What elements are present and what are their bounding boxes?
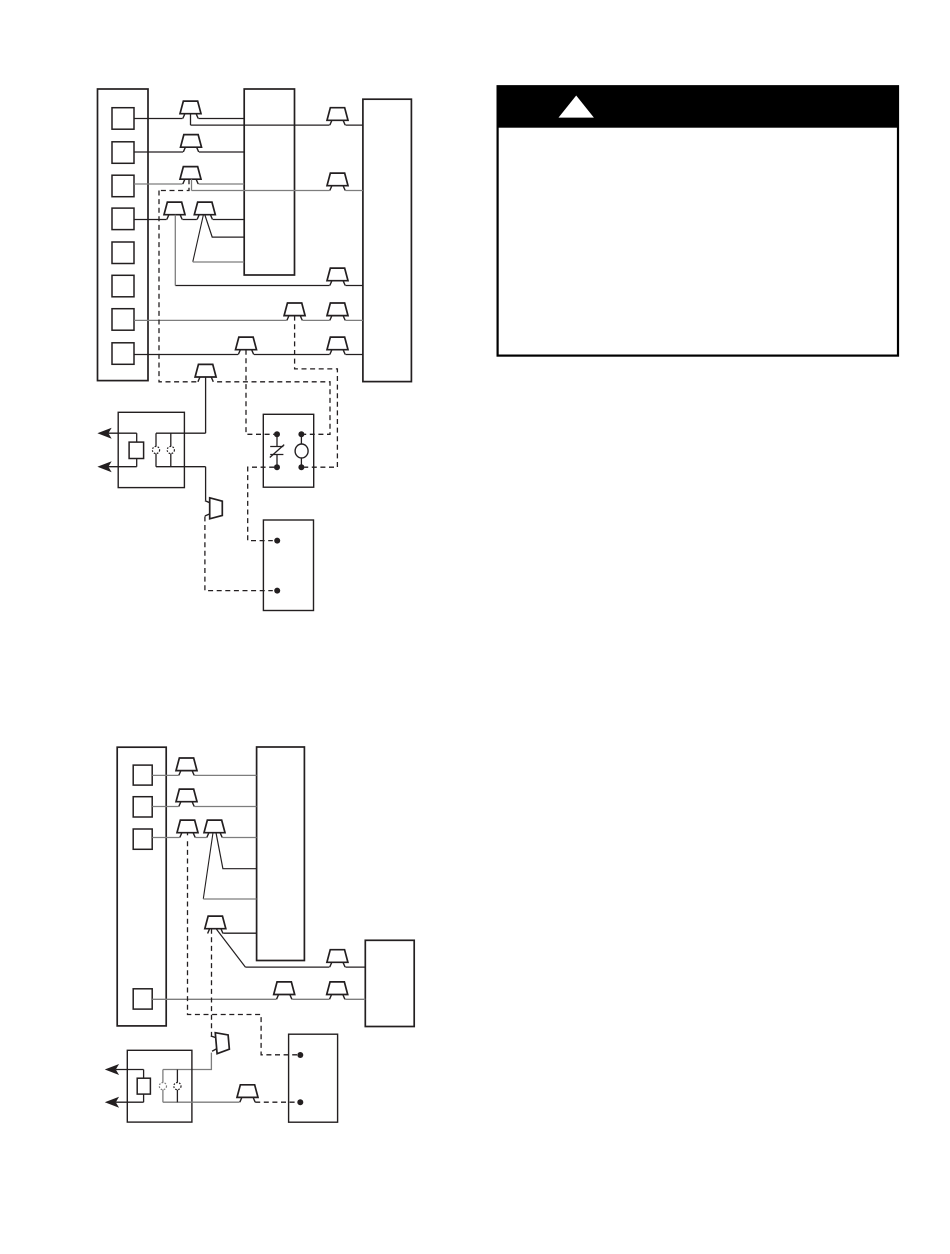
outdoor unit box 2 [365, 940, 414, 1026]
wire H2 to relay [163, 1053, 212, 1070]
thermostat terminal block TB1 [98, 89, 149, 381]
terminal R [112, 208, 134, 230]
T1 leads [155, 433, 157, 467]
wire nut LC1 [195, 364, 216, 384]
air handler control box [257, 747, 305, 961]
wire W to control [152, 806, 256, 808]
dashed drop from R4 [295, 316, 338, 468]
wire nut C4 [164, 202, 185, 222]
capacitor element [270, 437, 283, 465]
contactor terminal dot 1 [274, 538, 280, 544]
T2 leads [170, 433, 172, 467]
wire nut Cb [237, 1085, 258, 1105]
secondary bus top [156, 432, 206, 434]
drop wire from C3 [191, 179, 193, 190]
contactor 2 terminal dot 2 [297, 1099, 303, 1105]
dashed wire G circuit [159, 191, 330, 435]
wire O to outdoor unit [134, 319, 363, 321]
wire W2 to furnace [134, 118, 244, 120]
wire nut B6 [327, 950, 348, 970]
transformer relay box [118, 412, 184, 487]
run capacitor box [263, 414, 313, 487]
wire R to furnace [134, 219, 244, 221]
wire nut R5 [327, 303, 348, 323]
arrow to line hot 2 [106, 1065, 118, 1074]
dashed drop from C3 [159, 179, 189, 190]
wire nut R6 [236, 337, 257, 357]
wire nut R1 [327, 108, 348, 128]
wire nut H1 rotated [203, 498, 223, 519]
arrow line hot 2 [116, 1069, 144, 1071]
arrow to line neutral 2 [106, 1098, 118, 1107]
wire nut R3 [327, 268, 348, 288]
furnace control box [244, 89, 294, 275]
dashed wire H1 to contactor [205, 516, 273, 590]
arrow line neutral [109, 466, 137, 468]
motor terminal dot top [298, 431, 304, 437]
secondary bus bottom [156, 466, 206, 468]
dashed drop from R6 [246, 350, 274, 435]
capacitor arrow slash [270, 445, 284, 458]
coil lead top [136, 433, 138, 442]
capacitor terminal dot bottom [274, 464, 280, 470]
wire nut R2 [327, 173, 348, 193]
warning triangle [559, 96, 594, 118]
warning header bar [497, 85, 899, 127]
motor leads [300, 437, 302, 465]
wire LC1 to relay [205, 377, 207, 433]
wire node R to outdoor unit [175, 285, 363, 287]
wire to outdoor unit 2 [245, 966, 365, 968]
arrow line neutral 2 [116, 1101, 144, 1103]
contact terminal T4 [174, 1083, 181, 1090]
wire Y1 to furnace [134, 151, 244, 153]
terminal C2 [133, 989, 152, 1009]
dashed wire R2 circuit [188, 833, 298, 1055]
terminal Y1 [112, 142, 134, 164]
wire nut B4 [204, 820, 225, 840]
wire C to outdoor 2 [152, 998, 365, 1000]
drop wire from C4 [174, 215, 176, 286]
contactor box 2 [289, 1034, 338, 1122]
branch wire from B5 [217, 929, 246, 967]
wire nut B1 [176, 758, 197, 778]
wire C to outdoor unit [134, 354, 363, 356]
wire relay to horn nut [205, 467, 207, 501]
motor circle M1 [295, 444, 308, 458]
wire nut B3 [177, 820, 198, 840]
wire nut C2 [181, 135, 202, 155]
wire B4 to control [215, 932, 256, 934]
wire G to furnace [134, 183, 244, 185]
gray wire into control 2 [203, 898, 256, 900]
wire nut B8 [327, 982, 348, 1002]
wire nut C1 [180, 101, 201, 121]
arrow line hot [109, 432, 137, 434]
wire nut R4 [284, 303, 305, 323]
arrow to line voltage neutral [99, 462, 111, 471]
coil lead bottom [136, 459, 138, 467]
wire nut B2 [176, 789, 197, 809]
branch wire from C5 [205, 215, 244, 237]
motor terminal dot bottom [298, 464, 304, 470]
wire nut R7 [327, 337, 348, 357]
gray wire into furnace control [193, 261, 244, 263]
wire nut H2 rotated [208, 1032, 229, 1055]
wire nut C3 [180, 167, 201, 187]
terminal G [112, 175, 134, 197]
arrow to line voltage hot [99, 429, 111, 438]
contact terminal T1 [152, 446, 159, 453]
outdoor unit box [363, 99, 412, 381]
wire Y to control [152, 774, 256, 776]
contactor terminal dot 2 [274, 588, 280, 594]
contactor 2 terminal dot 1 [297, 1052, 303, 1058]
branch wire from B4 [216, 833, 257, 869]
drop wire from C1 [190, 114, 192, 125]
branch wire 2 from B4 [203, 833, 213, 899]
wire R to control 2 [152, 837, 256, 839]
T4 leads [176, 1070, 178, 1103]
wire nut B5 [205, 916, 226, 936]
capacitor terminal dot top [274, 431, 280, 437]
terminal 6 [112, 275, 134, 297]
thermostat terminal block TB2 [117, 747, 166, 1026]
terminal W [133, 797, 152, 817]
contact terminal T2 [167, 446, 174, 453]
dashed drop from B5 [211, 929, 213, 1037]
terminal Y [133, 765, 152, 785]
contact terminal T3 [159, 1083, 166, 1090]
terminal W2 [112, 108, 134, 130]
terminal R2 [133, 829, 152, 849]
transformer relay box 2 [127, 1050, 192, 1122]
wire nut C5 [194, 202, 215, 222]
relay coil K2 [137, 1078, 150, 1094]
coil leads 2 [143, 1070, 145, 1103]
wire nut B7 [274, 982, 295, 1002]
terminal C [112, 343, 134, 365]
contactor box [263, 520, 313, 611]
T3 leads [162, 1070, 164, 1103]
wire node W to outdoor unit [191, 124, 363, 126]
dashed wire capacitor to contactor [248, 467, 275, 540]
dashed wire Cb to contactor 2 [255, 1101, 297, 1103]
terminal O [112, 309, 134, 331]
warning box frame [498, 86, 898, 355]
wire node Y to outdoor unit [192, 190, 363, 192]
terminal 5 [112, 242, 134, 264]
secondary bus bottom 2 [163, 1101, 240, 1103]
branch wire 2 from C5 [193, 215, 204, 262]
relay coil K1 [129, 442, 144, 458]
